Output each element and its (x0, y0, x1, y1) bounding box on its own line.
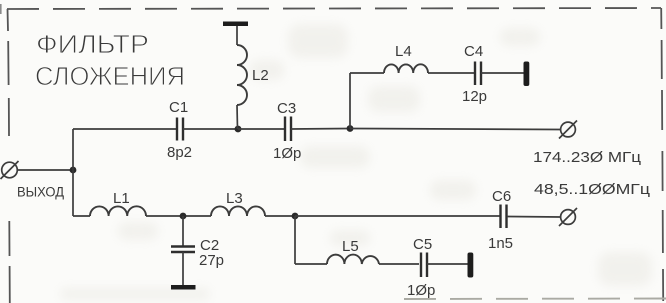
dashed frame bottom (faint) (404, 298, 666, 301)
capacitor C1 (177, 118, 183, 141)
svg-text:174..23Ø МГц: 174..23Ø МГц (533, 149, 641, 166)
svg-text:L4: L4 (395, 43, 412, 60)
svg-text:C3: C3 (277, 100, 296, 117)
svg-text:ВЫХОД: ВЫХОД (17, 185, 64, 200)
wire C2 to ground (182, 252, 184, 285)
capacitor C4 (475, 62, 481, 86)
wire C6 to lower output (507, 216, 561, 219)
wire C3 to node C (291, 128, 350, 131)
inductor L1 (90, 206, 146, 216)
scan edge artifact top-left (0, 4, 2, 14)
svg-text:48,5..1ØØМГц: 48,5..1ØØМГц (534, 181, 650, 198)
svg-text:1Øp: 1Øp (407, 282, 435, 299)
wire C1 to node B (183, 128, 238, 130)
svg-text:C5: C5 (413, 236, 432, 253)
terminal upper output (559, 121, 577, 139)
capacitor C6 (501, 205, 507, 229)
node A junction (70, 167, 77, 174)
wire to L4 (350, 72, 384, 74)
svg-text:ФИЛЬТР: ФИЛЬТР (36, 29, 149, 59)
wire left terminal to node A (17, 169, 73, 171)
svg-text:C4: C4 (464, 43, 483, 60)
svg-text:СЛОЖЕНИЯ: СЛОЖЕНИЯ (35, 61, 185, 91)
svg-text:L3: L3 (226, 190, 243, 207)
inductor L4 (384, 64, 428, 73)
svg-text:L1: L1 (113, 190, 130, 207)
wire L1 to node D (146, 215, 211, 217)
wire node B to C3 (238, 128, 284, 130)
wire C5 to bulkhead (427, 263, 468, 265)
node D junction (180, 213, 187, 220)
dashed frame left (8, 9, 10, 303)
svg-text:1Øp: 1Øp (273, 145, 301, 162)
wire node D down to C2 (182, 216, 184, 246)
wire node E to C6 (295, 215, 500, 217)
capacitor C5 (421, 253, 427, 278)
terminal ВЫХОД (left) (1, 161, 19, 179)
wire bar to L2 (236, 26, 238, 45)
wire node A vertical (72, 129, 74, 216)
node B junction (235, 126, 242, 133)
wire node C up to L4 branch (349, 73, 351, 129)
wire C4 to bulkhead (481, 72, 524, 74)
wire L3 to node E (265, 215, 295, 217)
antenna bar above L2 (223, 22, 248, 27)
svg-text:L5: L5 (342, 238, 359, 255)
svg-text:8p2: 8p2 (167, 144, 192, 161)
inductor L5 (327, 255, 379, 264)
capacitor C2 (171, 247, 195, 253)
svg-text:12p: 12p (462, 88, 487, 105)
wire upper bus left (73, 128, 176, 130)
node C junction (347, 125, 354, 132)
wire lower bus start (73, 215, 90, 217)
dashed frame right (661, 8, 663, 301)
wire node C to upper output (350, 129, 561, 130)
dashed frame top (7, 8, 661, 9)
wire node E down to L5 branch (294, 216, 296, 264)
bulkhead bar lower right (468, 253, 474, 278)
inductor L2 (237, 45, 247, 105)
wire to L5 (295, 263, 327, 265)
wire L2 to node B (236, 105, 239, 129)
svg-text:C6: C6 (492, 188, 511, 205)
node E junction (292, 213, 299, 220)
inductor L3 (211, 206, 265, 216)
svg-text:C1: C1 (169, 99, 188, 116)
svg-text:L2: L2 (252, 67, 269, 84)
ground bar (171, 285, 196, 290)
svg-text:27p: 27p (199, 252, 224, 269)
wire L5 to C5 (379, 263, 419, 265)
terminal lower output (559, 208, 577, 226)
capacitor C3 (285, 117, 291, 142)
wire L4 to C4 (428, 72, 474, 74)
svg-text:1n5: 1n5 (488, 235, 513, 252)
bulkhead bar top right (524, 62, 530, 87)
